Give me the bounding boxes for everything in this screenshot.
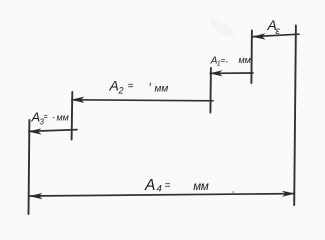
svg-text:ε: ε xyxy=(276,26,281,37)
faint scan smudge top middle xyxy=(208,16,237,40)
label A1 xyxy=(210,55,251,68)
svg-text:=: = xyxy=(44,114,48,121)
extension line V3 xyxy=(209,68,212,113)
svg-text:мм: мм xyxy=(193,181,209,193)
svg-text:мм: мм xyxy=(57,113,69,123)
dimension line A_sigma xyxy=(252,33,299,39)
extension line V5 (leftmost) xyxy=(28,120,31,214)
dimension line A4 xyxy=(29,191,295,200)
dimension line A1 xyxy=(210,70,254,76)
extension line V2 xyxy=(250,31,253,84)
label A3 xyxy=(31,110,69,127)
extension line V4 xyxy=(71,92,74,140)
svg-text:A: A xyxy=(109,78,119,94)
label A2 xyxy=(109,78,169,96)
svg-text:мм: мм xyxy=(239,55,251,65)
dimension line A3 xyxy=(28,128,77,134)
svg-text:=: = xyxy=(165,181,171,192)
label A_sigma xyxy=(267,17,281,37)
extension line V1 (rightmost) xyxy=(294,26,296,206)
label A4 xyxy=(144,177,209,195)
dimension line A2 xyxy=(71,97,213,103)
svg-text:=: = xyxy=(128,81,134,92)
svg-text:мм: мм xyxy=(155,84,169,95)
svg-text:=: = xyxy=(221,56,226,65)
svg-text:A: A xyxy=(144,177,155,194)
svg-text:4: 4 xyxy=(157,184,162,195)
svg-text:2: 2 xyxy=(118,86,124,96)
